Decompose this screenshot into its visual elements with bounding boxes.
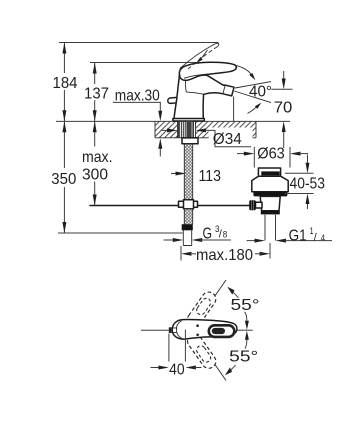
countertop deck cross-section hatched: [155, 121, 256, 137]
dimension 350: [48, 121, 81, 233]
tailpipe G1 1/4: [265, 215, 276, 241]
pop-up rod horizontal: [90, 205, 250, 207]
braided supply hose upper: [184, 144, 192, 201]
dimension O63: [237, 146, 308, 168]
faucet body side view: [168, 62, 237, 121]
G3/8 thread cylinder: [183, 230, 191, 245]
svg-text:184: 184: [53, 75, 78, 92]
svg-text:70: 70: [274, 100, 293, 117]
neck inner line: [186, 79, 204, 95]
faucet body plan capsule: [172, 320, 237, 340]
phantom handle rotated up: [185, 289, 219, 329]
dimension 184: [49, 43, 79, 122]
reference line deck top level: [56, 120, 290, 122]
diagonal centerline lower: [192, 331, 227, 380]
plug dark band: [261, 171, 279, 175]
dimension 40 plan: [151, 330, 202, 379]
body dots: [196, 324, 199, 327]
svg-text:113: 113: [199, 168, 222, 185]
dimension G1 1/4: [247, 226, 333, 244]
handle inner pill: [212, 328, 225, 334]
svg-text:40: 40: [169, 361, 185, 378]
aerator position extension line: [233, 97, 235, 122]
plug top cylinder: [258, 168, 280, 176]
svg-text:137: 137: [84, 85, 109, 102]
dimension 113 leader: [171, 168, 221, 185]
dimension max.180: [181, 243, 270, 264]
reference line bottom (350 end): [58, 232, 183, 234]
aerator face line: [223, 85, 225, 94]
55deg lower leader arrow to diagonal: [225, 365, 236, 375]
waste body: [260, 196, 280, 210]
dimension max.300: [80, 121, 114, 205]
svg-text:G: G: [203, 226, 213, 243]
reference line top (lever max height): [59, 42, 219, 44]
o-ring seal: [253, 192, 287, 197]
rod clamp at hose: [179, 200, 198, 209]
lock nut: [261, 211, 280, 215]
dimension G3/8: [164, 224, 232, 243]
svg-text:40°: 40°: [249, 84, 272, 101]
40deg lower arc arrow: [248, 103, 262, 114]
lever handle: [179, 62, 236, 80]
phantom lever raised: [180, 43, 219, 69]
spout nose plan: [171, 328, 177, 333]
body inner arc: [176, 321, 182, 339]
rod knob knurled: [249, 200, 256, 210]
40deg upper arc arrow: [235, 65, 256, 80]
base plate: [173, 119, 204, 122]
svg-text:350: 350: [51, 171, 76, 188]
shank through deck: [179, 121, 199, 144]
55deg upper leader arrow to diagonal: [227, 287, 238, 298]
body column: [174, 74, 234, 121]
handle oval ring: [209, 325, 235, 337]
aerator spray rays (40 deg): [234, 82, 271, 103]
55deg upper down arrow to centerline: [245, 312, 249, 330]
pop-up waste assembly: [249, 168, 288, 241]
dimension max.30 (deck thickness): [113, 88, 162, 157]
reference line lever rest height: [90, 62, 213, 64]
svg-text:55°: 55°: [229, 349, 258, 366]
svg-text:max.180: max.180: [196, 247, 253, 264]
handle centerline right: [237, 329, 253, 331]
mounting nut under deck: [182, 138, 198, 144]
dimension O34: [161, 128, 253, 149]
G3/8 hose nut: [182, 224, 193, 230]
55deg lower up arrow to centerline: [245, 331, 249, 349]
svg-text:300: 300: [82, 167, 108, 184]
svg-text:55°: 55°: [231, 297, 260, 314]
dimension 137: [81, 63, 112, 122]
svg-text:Ø34: Ø34: [213, 131, 242, 148]
svg-text:4: 4: [321, 233, 326, 244]
svg-text:8: 8: [223, 230, 228, 241]
pull-rod knob: [168, 97, 179, 103]
spout leader line: [141, 329, 169, 331]
dimension 40-53: [285, 155, 326, 210]
diagonal centerline upper: [192, 280, 227, 330]
flange bell: [252, 176, 288, 192]
dimension 70: [271, 71, 292, 148]
phantom handle rotated down: [185, 331, 219, 371]
rod knob stem: [256, 202, 263, 208]
svg-text:Ø63: Ø63: [257, 146, 285, 163]
svg-text:max.: max.: [82, 149, 113, 166]
lever crease line: [184, 74, 214, 79]
svg-text:40-53: 40-53: [290, 176, 326, 193]
svg-text:G1: G1: [289, 227, 307, 244]
braided supply hose lower: [184, 209, 192, 225]
